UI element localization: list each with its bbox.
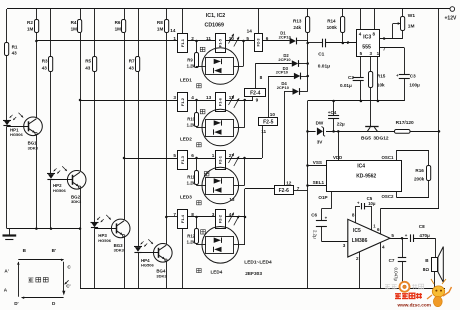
inverter F1-2 [178, 93, 188, 112]
svg-text:3DG12: 3DG12 [373, 135, 389, 141]
svg-text:R3: R3 [42, 59, 48, 64]
svg-text:R16: R16 [415, 168, 424, 173]
svg-text:7: 7 [173, 212, 176, 217]
wire VSS to ground bus [308, 165, 328, 167]
wire VDD supply line [308, 131, 440, 133]
svg-text:11: 11 [261, 129, 266, 134]
svg-text:R7: R7 [129, 59, 135, 64]
svg-text:0.01μ: 0.01μ [318, 64, 330, 70]
svg-text:13: 13 [229, 197, 235, 202]
svg-text:C3: C3 [410, 74, 416, 79]
wire F1-3 output [188, 158, 216, 160]
svg-text:1: 1 [173, 36, 176, 41]
svg-text:3V: 3V [317, 140, 324, 145]
speaker B 8ohm [435, 238, 437, 257]
photodiode HP2 [47, 173, 55, 175]
svg-text:IC1, IC2: IC1, IC2 [206, 13, 225, 19]
svg-text:22μ: 22μ [337, 121, 345, 126]
wire F2-5 output pin10 to D3 [268, 76, 270, 118]
svg-text:VDD: VDD [333, 155, 342, 160]
svg-text:HG506: HG506 [10, 132, 23, 137]
capacitor C2 0.01u [353, 77, 364, 79]
svg-text:KD-9562: KD-9562 [356, 173, 376, 179]
resistor R12 1.2k [196, 217, 198, 229]
wire IC1 pin7 GND [182, 229, 184, 289]
wire LM386 output pin5 [390, 238, 408, 240]
svg-text:BG5: BG5 [361, 135, 371, 141]
svg-text:+: + [396, 73, 399, 78]
wire IC2 pin14 VDD [258, 9, 260, 33]
wire F2-4 output pin8 to D2 [255, 64, 257, 89]
svg-text:43: 43 [129, 65, 135, 70]
svg-text:100μ: 100μ [409, 82, 420, 87]
svg-text:F2-3: F2-3 [256, 38, 261, 47]
svg-text:SEL1: SEL1 [313, 180, 325, 185]
inverter F1-1 [178, 34, 188, 53]
resistor R1 43 [6, 9, 8, 43]
label red row2 [197, 143, 202, 147]
wire 555 pin7 [380, 47, 405, 49]
resistor R9 1.2k [196, 41, 198, 53]
svg-text:2EF303: 2EF303 [245, 271, 262, 277]
wire R4 collector drop row2 [80, 100, 82, 171]
svg-text:2.2μ: 2.2μ [312, 230, 317, 239]
svg-text:555: 555 [362, 45, 371, 51]
svg-text:100k: 100k [327, 25, 338, 30]
svg-text:B': B' [52, 248, 56, 253]
svg-text:11: 11 [206, 36, 211, 41]
svg-text:24k: 24k [293, 25, 301, 30]
inverter F2-1 [216, 151, 226, 170]
label green row3 [204, 172, 209, 176]
svg-text:13: 13 [206, 95, 212, 100]
svg-text:D': D' [14, 301, 18, 306]
resistor R8 1M [166, 9, 168, 19]
svg-text:1M: 1M [115, 27, 122, 32]
wire row4 to F2-6 pin13 [225, 216, 245, 218]
svg-text:R15: R15 [377, 73, 386, 78]
wire SEL1 to ground bus [308, 185, 328, 187]
transistor BG3 3DK3 [111, 219, 130, 238]
svg-text:14: 14 [170, 28, 176, 33]
svg-text:3: 3 [212, 212, 215, 217]
wire HP1 column [6, 56, 8, 121]
svg-text:8Ω: 8Ω [423, 267, 430, 272]
svg-text:+12V: +12V [445, 16, 457, 22]
svg-text:C6: C6 [311, 212, 317, 217]
wire +12V right bus [438, 9, 440, 208]
svg-text:F1-1: F1-1 [180, 38, 185, 47]
terminal +12V [450, 7, 455, 12]
svg-text:R4: R4 [71, 20, 77, 25]
ground [9, 229, 11, 235]
svg-text:1M: 1M [71, 27, 78, 32]
wire VDD riser to IC4 [338, 131, 340, 160]
wire R2 collector drop row1 [36, 41, 38, 118]
svg-text:7: 7 [297, 186, 300, 191]
svg-text:LM386: LM386 [352, 238, 368, 244]
svg-text:43: 43 [42, 65, 48, 70]
inverter F1-4 [178, 210, 188, 229]
svg-text:F2-2: F2-2 [218, 214, 223, 223]
diode D3 2CP10 [294, 73, 300, 79]
svg-text:www.dzsc.com: www.dzsc.com [397, 303, 431, 308]
svg-text:R12: R12 [187, 234, 195, 239]
capacitor C6 2.2u [321, 209, 323, 221]
svg-text:3DK3: 3DK3 [114, 248, 125, 253]
label red row3 [197, 201, 202, 205]
inverter F2-5 [259, 118, 278, 126]
svg-text:R1: R1 [12, 44, 18, 49]
capacitor C8 470u [410, 234, 412, 242]
svg-text:R11: R11 [187, 175, 195, 180]
capacitor C1 0.01u [308, 42, 323, 44]
svg-text:2CP10: 2CP10 [278, 57, 291, 62]
wire LM386 pin6 supply [380, 208, 382, 234]
wire emitter drop row4 [166, 261, 168, 289]
svg-text:+: + [325, 216, 328, 221]
resistor R2 1M [36, 9, 38, 19]
wire ground bus vertical [307, 101, 309, 289]
resistor R17 120 [395, 130, 411, 134]
label green row4 [201, 230, 206, 234]
wire O1P output [331, 192, 333, 209]
transistor BG4 3DK3 [154, 244, 173, 263]
label red row1 [197, 84, 202, 88]
svg-text:6: 6 [191, 153, 194, 158]
wire row1 to F2-3 [225, 40, 254, 42]
resistor R5 43 [94, 9, 96, 57]
resistor R4 1M [80, 9, 82, 19]
wire F1-2 output [188, 100, 216, 102]
svg-text:R10: R10 [187, 117, 195, 122]
wire sensor rail row4 [166, 216, 177, 218]
resistor R3 43 [50, 9, 52, 57]
wire LM386 pin8 and capacitor C5 10u [355, 206, 357, 223]
LED LED2 [202, 109, 239, 146]
svg-text:F1-6: F1-6 [218, 97, 223, 106]
transistor BG2 3DK3 [67, 171, 86, 190]
wire diode cathode bus [296, 40, 308, 42]
node D arrow [22, 297, 64, 299]
svg-text:F1-3: F1-3 [180, 155, 185, 164]
photodiode HP3 [91, 222, 99, 224]
wire LM386 pin2 ground [359, 252, 361, 289]
svg-text:6: 6 [377, 227, 380, 232]
svg-text:5: 5 [391, 233, 394, 238]
svg-text:LED3: LED3 [180, 195, 192, 200]
svg-text:F1-4: F1-4 [180, 214, 185, 223]
svg-text:1M: 1M [157, 27, 164, 32]
svg-text:5: 5 [246, 36, 249, 41]
svg-text:HG506: HG506 [141, 263, 154, 268]
svg-text:R17/120: R17/120 [396, 120, 414, 126]
svg-text:0.01μ: 0.01μ [340, 83, 352, 88]
svg-text:O1P: O1P [318, 195, 327, 200]
svg-text:8: 8 [352, 212, 355, 217]
wire emitter drop row3 [124, 236, 126, 288]
watermark logo [385, 282, 424, 292]
wire 555 pin3 to R15 [370, 57, 372, 72]
svg-text:R14: R14 [327, 18, 336, 23]
wire LED1 to output [239, 66, 244, 68]
svg-text:LED4: LED4 [211, 270, 223, 275]
svg-text:200k: 200k [414, 177, 425, 182]
svg-text:12: 12 [286, 181, 292, 186]
wire analog ground rail [308, 100, 405, 102]
svg-text:R2: R2 [27, 20, 33, 25]
svg-text:1.2k: 1.2k [187, 240, 196, 245]
resistor R7 43 [138, 9, 140, 57]
wire LED3 to output [239, 185, 245, 187]
resistor R15 10k [369, 72, 373, 88]
IC chip IC4 KD-9562 [327, 161, 402, 192]
svg-text:1.2k: 1.2k [187, 123, 196, 128]
wire row3 to F2-5 pin11 [225, 158, 262, 160]
inverter F2-2 [216, 210, 226, 229]
wire ground rail left [7, 228, 80, 230]
wire HP4 column [138, 72, 140, 247]
svg-text:43: 43 [12, 50, 18, 55]
label red row4 [197, 268, 202, 272]
wire emitter drop row1 [36, 134, 38, 228]
svg-text:2: 2 [356, 256, 359, 261]
svg-text:4: 4 [191, 95, 194, 100]
node A arrows [18, 262, 20, 297]
wire 555 pin7 to C3 [404, 48, 406, 75]
svg-text:R5: R5 [85, 59, 91, 64]
svg-text:LED2: LED2 [180, 137, 192, 142]
wire emitter drop row2 [80, 188, 82, 289]
svg-text:VSS: VSS [313, 160, 322, 165]
wire LM386 pin4 ground [380, 242, 382, 288]
svg-text:C7: C7 [389, 258, 395, 263]
op-amp U IC3 555 box [357, 30, 380, 57]
svg-text:IC4: IC4 [357, 164, 365, 170]
svg-text:1: 1 [212, 153, 215, 158]
svg-text:8: 8 [260, 75, 263, 80]
svg-text:1M: 1M [27, 27, 34, 32]
svg-text:3DK3: 3DK3 [156, 273, 167, 278]
resistor R14 100k [342, 9, 344, 17]
photodiode HP1 [3, 120, 11, 122]
inverter F2-3 [255, 34, 263, 52]
wire F1-1 output [188, 40, 216, 42]
svg-text:R13: R13 [293, 18, 302, 23]
wire sensor rail row2 [80, 100, 178, 102]
transistor BG5 3DG12 [370, 88, 372, 127]
wire 555 pin8 [374, 9, 376, 30]
svg-text:F2-5: F2-5 [263, 119, 274, 125]
svg-text:+C4: +C4 [328, 110, 337, 115]
LED LED3 [202, 167, 239, 204]
diode D2 2CP10 [292, 60, 298, 66]
zener diode DW 3V [316, 126, 326, 136]
svg-text:1.2k: 1.2k [187, 64, 196, 69]
capacitor C4 22u [333, 101, 335, 115]
svg-text:9: 9 [256, 97, 259, 102]
svg-text:3: 3 [343, 243, 346, 248]
capacitor C3 100u [399, 74, 410, 76]
wire row1 F2-3 to D1 [263, 40, 290, 42]
svg-text:10μ: 10μ [368, 201, 376, 206]
node C arrows [63, 262, 65, 292]
resistor R11 1.2k [196, 158, 198, 170]
svg-text:R8: R8 [157, 20, 163, 25]
svg-text:A': A' [4, 269, 8, 274]
svg-text:C': C' [66, 284, 70, 289]
wire row2 to F2-4 pin9 [225, 100, 253, 102]
svg-text:IC3: IC3 [363, 35, 371, 41]
wire 555 pin6 [380, 38, 403, 40]
resistor R10 1.2k [196, 100, 198, 112]
wire LED2 to output [239, 127, 245, 129]
svg-text:F1-2: F1-2 [180, 97, 185, 106]
wire OSC2 [397, 197, 429, 199]
wire F1-4 output [188, 216, 216, 218]
wire bottom ground rail [80, 288, 445, 290]
wire OSC1 [396, 150, 398, 161]
diode D1 2CP10 [290, 38, 296, 44]
svg-text:LED1: LED1 [180, 78, 192, 83]
wire LED4 to output [239, 244, 245, 246]
svg-text:C2: C2 [348, 75, 354, 80]
op-amp IC5 LM386 [348, 219, 390, 257]
transistor BG1 3DK3 [24, 117, 43, 136]
watermark title [395, 293, 422, 299]
svg-text:C8: C8 [419, 224, 425, 229]
svg-text:F2-6: F2-6 [279, 188, 290, 194]
svg-text:4: 4 [382, 244, 385, 249]
resistor R16 200k [428, 150, 430, 165]
svg-text:10k: 10k [377, 83, 385, 88]
wire +12V top rail [7, 8, 450, 10]
inverter F1-5 [216, 34, 226, 53]
wire HP2 column [50, 72, 52, 174]
svg-text:F2-1: F2-1 [218, 155, 223, 164]
svg-text:3DK3: 3DK3 [28, 145, 39, 150]
wire IC2 pin7 GND [294, 190, 308, 192]
svg-text:CD1069: CD1069 [205, 23, 224, 29]
svg-text:F2-4: F2-4 [250, 91, 261, 97]
svg-text:HG506: HG506 [98, 238, 111, 243]
wire sensor rail row1 [36, 40, 177, 42]
svg-text:470μ: 470μ [419, 233, 430, 238]
LED LED1 [202, 48, 239, 85]
svg-text:C1: C1 [318, 52, 324, 58]
svg-text:OSC2: OSC2 [382, 194, 395, 199]
svg-text:LED1~LED4: LED1~LED4 [244, 259, 272, 265]
svg-text:14: 14 [247, 28, 253, 33]
wire 555 pin1 to ground rail [377, 57, 379, 101]
diode D4 2CP10 [293, 88, 299, 94]
svg-text:3: 3 [173, 95, 176, 100]
LED LED4 [202, 227, 239, 264]
svg-text:2CP10: 2CP10 [279, 34, 292, 39]
svg-text:W1: W1 [408, 13, 416, 19]
wire IC1 pin14 VDD [182, 9, 184, 33]
wire F2-6 output pin12 to D4 [284, 92, 286, 186]
svg-text:F1-5: F1-5 [218, 38, 223, 47]
label green row1 [200, 47, 205, 51]
svg-text:1M: 1M [408, 24, 415, 30]
wire R8 collector drop row4 [166, 217, 168, 244]
svg-text:0.047μ: 0.047μ [394, 268, 399, 282]
svg-text:OSC1: OSC1 [382, 155, 395, 160]
watermark mascot [427, 279, 452, 307]
svg-text:2CP10: 2CP10 [277, 85, 290, 90]
wire HP3 column [94, 72, 96, 223]
svg-text:10: 10 [270, 112, 276, 117]
svg-text:2CP10: 2CP10 [276, 70, 289, 75]
potentiometer W1 1M [402, 9, 404, 17]
svg-text:43: 43 [85, 65, 91, 70]
svg-text:IC5: IC5 [353, 228, 361, 234]
inverter F1-6 [216, 93, 226, 112]
resistor R6 1M [124, 9, 126, 19]
svg-text:1.2k: 1.2k [187, 181, 196, 186]
wire R6 collector drop row3 [124, 158, 126, 220]
inverter F2-4 [245, 89, 266, 97]
svg-text:+: + [405, 233, 408, 238]
svg-text:R6: R6 [115, 20, 121, 25]
resistor R13 24k [307, 9, 309, 17]
capacitor C7 0.047u [401, 237, 404, 240]
svg-text:R9: R9 [187, 58, 193, 63]
inverter F2-6 [275, 186, 294, 195]
svg-text:HG506: HG506 [53, 188, 66, 193]
wire 555 pin5 to C2 [360, 57, 362, 78]
photodiode HP4 [134, 246, 142, 248]
svg-text:5: 5 [173, 153, 176, 158]
wire sensor rail row3 [124, 158, 178, 160]
wire 555 pin4 [360, 9, 362, 30]
svg-text:DW: DW [316, 120, 324, 125]
label green row2 [200, 109, 205, 113]
inverter F1-3 [178, 151, 188, 170]
label danger zone [28, 278, 33, 282]
